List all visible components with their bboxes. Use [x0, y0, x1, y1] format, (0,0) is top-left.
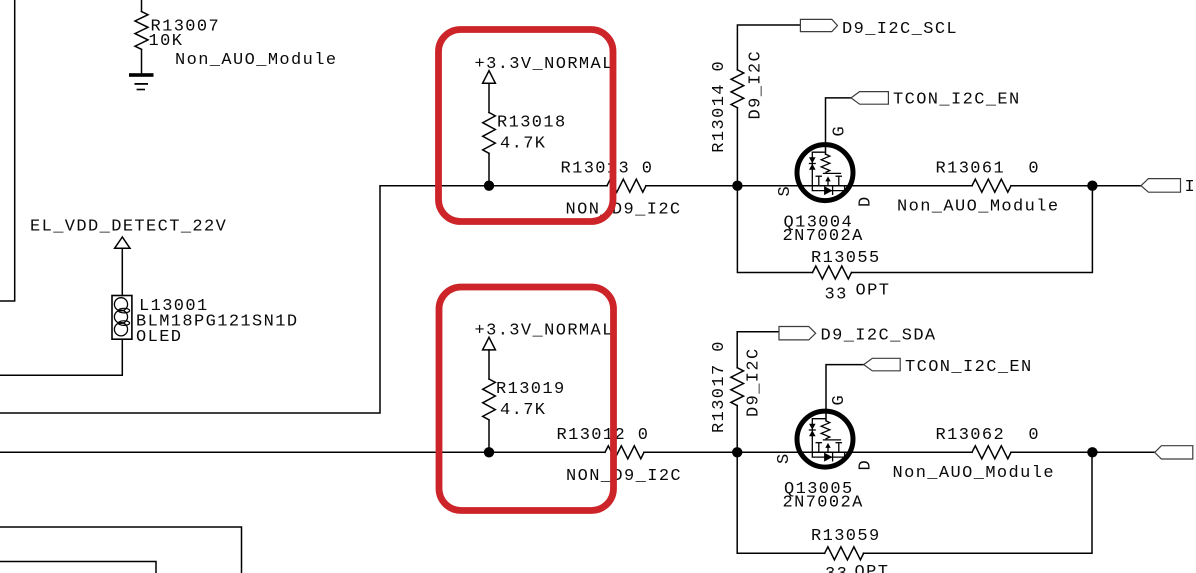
- wire R13007 to ground: [141, 50, 143, 74]
- tag D9_I2C_SCL: [800, 19, 837, 31]
- svg-text:S: S: [776, 185, 795, 197]
- svg-text:TCON_I2C_EN: TCON_I2C_EN: [905, 358, 1033, 377]
- svg-text:2N7002A: 2N7002A: [783, 227, 864, 246]
- resistor R13019: [483, 379, 496, 420]
- resistor R13017: [731, 368, 744, 406]
- svg-text:R13018: R13018: [497, 114, 567, 133]
- ground: [129, 73, 154, 90]
- highlight box 2: [439, 287, 614, 511]
- wire +3.3V to R13018: [488, 83, 490, 112]
- wire R13017 branch: [737, 332, 779, 453]
- svg-text:R13014 0: R13014 0: [710, 60, 729, 153]
- wire R13055 branch: [737, 186, 1092, 273]
- svg-text:D9_I2C: D9_I2C: [747, 50, 766, 120]
- node junction bottom right: [1087, 447, 1097, 457]
- power +3.3V arrow top: [483, 71, 496, 84]
- power +3.3V arrow bottom: [483, 337, 496, 350]
- node junction bottom R13017: [732, 447, 742, 457]
- resistor R13055: [813, 266, 852, 279]
- transistor Q13005: [797, 411, 853, 467]
- tag right bottom: [1155, 446, 1193, 459]
- svg-text:EL_VDD_DETECT_22V: EL_VDD_DETECT_22V: [30, 218, 227, 237]
- wire TCON bottom: [826, 365, 864, 421]
- wire left frame vertical: [0, 0, 15, 301]
- svg-text:OPT: OPT: [856, 282, 891, 301]
- wire NON_D9_I2C bottom net: [0, 451, 605, 453]
- junction dots: [484, 181, 1098, 458]
- svg-text:Non_AUO_Module: Non_AUO_Module: [893, 464, 1055, 483]
- node EL_VDD_DETECT_22V arrow: [115, 237, 130, 248]
- resistor R13012: [605, 446, 644, 459]
- inductor L13001: [112, 296, 132, 340]
- svg-text:R13019: R13019: [496, 380, 566, 399]
- svg-text:+3.3V_NORMAL: +3.3V_NORMAL: [475, 55, 614, 74]
- svg-text:Non_AUO_Module: Non_AUO_Module: [175, 51, 337, 70]
- resistor R13062: [972, 446, 1011, 459]
- wire TCON top: [826, 98, 852, 154]
- node junction top R13014: [732, 181, 742, 191]
- svg-text:TCON_I2C_EN: TCON_I2C_EN: [893, 91, 1021, 110]
- resistor R13018: [483, 113, 496, 154]
- svg-text:2N7002A: 2N7002A: [783, 494, 864, 513]
- svg-text:OLED: OLED: [136, 328, 182, 347]
- svg-text:NON_D9_I2C: NON_D9_I2C: [566, 467, 682, 486]
- node junction top right: [1087, 181, 1097, 191]
- svg-text:R13013 0: R13013 0: [561, 160, 654, 179]
- wire +3.3V to R13019: [488, 350, 490, 379]
- svg-text:NON_D9_I2C: NON_D9_I2C: [566, 201, 682, 220]
- resistor R13059: [825, 547, 864, 560]
- resistor R13007: [135, 12, 148, 50]
- wire EL arrow to L13001: [121, 248, 123, 295]
- tag TCON_I2C_EN bottom: [864, 358, 901, 371]
- wire L13001 bottom: [0, 339, 122, 375]
- frame bottom-left outer: [0, 527, 242, 573]
- wire R13059 branch: [737, 452, 1092, 553]
- svg-text:D9_I2C_SCL: D9_I2C_SCL: [842, 20, 958, 39]
- svg-text:D: D: [857, 195, 876, 207]
- wire R13014 branch: [737, 25, 800, 186]
- wire R13012 to transistor: [644, 451, 972, 453]
- svg-text:4.7K: 4.7K: [500, 401, 546, 420]
- svg-text:D9_I2C: D9_I2C: [745, 347, 764, 417]
- tag TCON_I2C_EN top: [851, 92, 888, 105]
- resistor R13061: [972, 179, 1011, 192]
- svg-text:+3.3V_NORMAL: +3.3V_NORMAL: [475, 322, 614, 341]
- svg-text:I: I: [1185, 178, 1196, 197]
- wire R13062 to tag: [1011, 451, 1155, 453]
- wire R13061 to tag: [1011, 185, 1141, 187]
- svg-text:Non_AUO_Module: Non_AUO_Module: [897, 198, 1059, 217]
- tag D9_I2C_SDA: [779, 327, 816, 340]
- svg-text:R13017 0: R13017 0: [710, 340, 729, 433]
- wire R13018 to junction: [488, 154, 490, 186]
- svg-text:R13012 0: R13012 0: [557, 426, 650, 445]
- resistor R13013: [607, 179, 646, 192]
- wire R13007 top stub: [141, 0, 143, 12]
- svg-text:D9_I2C_SDA: D9_I2C_SDA: [821, 327, 937, 346]
- svg-text:33: 33: [825, 565, 848, 573]
- node junction top R13018: [484, 181, 494, 191]
- svg-text:R13061 0: R13061 0: [936, 160, 1040, 179]
- resistor R13014: [731, 70, 744, 108]
- svg-text:R13055: R13055: [811, 249, 881, 268]
- node junction bottom R13019: [484, 447, 494, 457]
- svg-text:33: 33: [825, 286, 848, 305]
- frame bottom-left inner: [0, 562, 156, 573]
- svg-text:G: G: [830, 394, 849, 406]
- tag right top: [1141, 179, 1181, 193]
- svg-text:R13062 0: R13062 0: [936, 426, 1040, 445]
- wire R13013 to transistor: [646, 185, 972, 187]
- svg-text:G: G: [831, 125, 850, 137]
- svg-text:R13059: R13059: [811, 527, 881, 546]
- highlight box 1: [439, 30, 614, 222]
- svg-text:OPT: OPT: [855, 563, 890, 573]
- svg-text:D: D: [857, 459, 876, 471]
- wire R13019 to junction: [488, 420, 490, 452]
- transistor Q13004: [797, 145, 853, 201]
- svg-text:10K: 10K: [149, 32, 184, 51]
- svg-text:S: S: [775, 452, 794, 464]
- wire NON_D9_I2C top net left leg: [0, 186, 607, 413]
- svg-text:4.7K: 4.7K: [500, 135, 546, 154]
